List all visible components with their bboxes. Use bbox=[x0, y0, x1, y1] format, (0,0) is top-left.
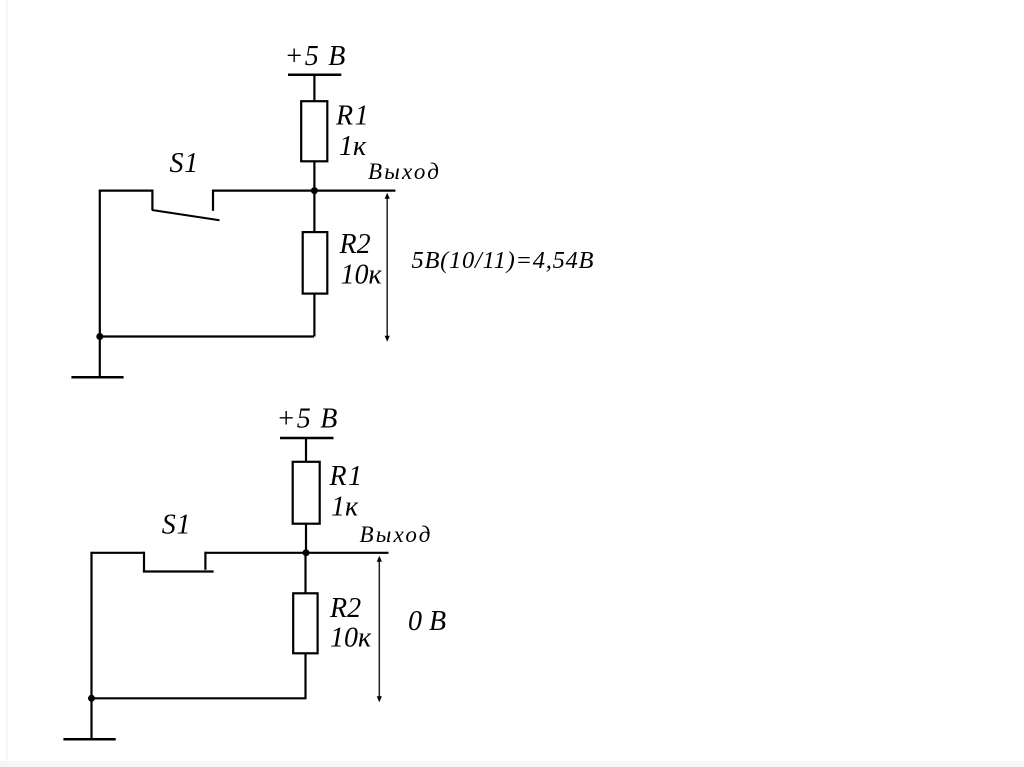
svg-text:1к: 1к bbox=[331, 492, 359, 523]
node line right segment (bottom) bbox=[205, 552, 388, 554]
voltage arrow shaft (top) bbox=[386, 196, 388, 337]
svg-text:S1: S1 bbox=[170, 148, 200, 179]
ground bar (bottom) bbox=[63, 738, 115, 741]
arrowhead down (bottom) bbox=[377, 696, 382, 702]
svg-text:R1: R1 bbox=[335, 101, 370, 132]
node line left segment (bottom) bbox=[92, 552, 145, 554]
switch S1 left contact drop (top, open) bbox=[151, 190, 153, 211]
svg-text:R2: R2 bbox=[329, 593, 361, 624]
svg-text:R2: R2 bbox=[339, 229, 371, 260]
switch S1 left contact drop (bottom, closed) bbox=[143, 552, 145, 572]
svg-text:1к: 1к bbox=[339, 131, 367, 162]
switch S1 right contact drop (top) bbox=[212, 190, 214, 211]
power rail bar (bottom circuit) bbox=[280, 437, 334, 440]
voltage arrow shaft (bottom) bbox=[378, 559, 380, 698]
svg-text:+5 В: +5 В bbox=[277, 404, 339, 435]
left wire down (top) bbox=[99, 190, 101, 337]
wire: R1 to output node (bottom) bbox=[305, 524, 307, 553]
left wire down (bottom) bbox=[90, 552, 92, 699]
power rail bar (top circuit) bbox=[288, 73, 341, 76]
node line left segment (top) bbox=[100, 190, 153, 192]
node line right segment (top) bbox=[212, 190, 395, 192]
arrowhead up (top) bbox=[385, 193, 390, 199]
switch S1 blade, open (top) bbox=[152, 210, 220, 220]
resistor R2 (bottom circuit) bbox=[293, 593, 317, 653]
ground stem (bottom) bbox=[90, 698, 92, 739]
ground stem (top) bbox=[99, 337, 101, 378]
resistor R1 (top circuit) bbox=[301, 101, 327, 161]
svg-text:Выход: Выход bbox=[368, 159, 441, 184]
svg-text:0 В: 0 В bbox=[408, 606, 446, 637]
junction dot at output node (bottom) bbox=[303, 549, 310, 556]
svg-text:Выход: Выход bbox=[360, 522, 433, 547]
svg-text:R1: R1 bbox=[329, 461, 364, 492]
junction dot at ground node (bottom) bbox=[88, 695, 95, 702]
bottom gray band bbox=[0, 761, 1024, 767]
switch S1 blade, closed (bottom) bbox=[143, 570, 214, 572]
wire: node to R2 (top) bbox=[313, 191, 315, 233]
wire: R2 to bottom wire (top) bbox=[313, 294, 315, 337]
wire: R1 to output node (top) bbox=[313, 161, 315, 190]
resistor R2 (top circuit) bbox=[303, 232, 328, 294]
svg-text:5В(10/11)=4,54В: 5В(10/11)=4,54В bbox=[412, 247, 595, 274]
junction dot at output node (top) bbox=[311, 187, 318, 194]
svg-text:10к: 10к bbox=[341, 259, 383, 290]
junction dot at ground node (top) bbox=[96, 333, 103, 340]
ground bar (top) bbox=[71, 376, 123, 379]
svg-text:S1: S1 bbox=[162, 510, 192, 541]
wire: node to R2 (bottom) bbox=[304, 553, 306, 594]
left edge faint line bbox=[6, 0, 8, 767]
svg-text:+5 В: +5 В bbox=[285, 41, 347, 72]
svg-text:10к: 10к bbox=[330, 623, 372, 654]
resistor R1 (bottom circuit) bbox=[293, 462, 320, 524]
arrowhead up (bottom) bbox=[377, 556, 382, 562]
bottom wire (bottom circuit) bbox=[92, 697, 307, 699]
switch S1 right contact drop (bottom) bbox=[204, 552, 206, 570]
bottom wire (top circuit) bbox=[100, 335, 314, 337]
arrowhead down (top) bbox=[385, 336, 390, 342]
wire: R2 to bottom wire (bottom) bbox=[304, 653, 306, 698]
wire: power bar to R1 (bottom) bbox=[305, 438, 307, 463]
wire: power bar to R1 (top) bbox=[313, 75, 315, 102]
